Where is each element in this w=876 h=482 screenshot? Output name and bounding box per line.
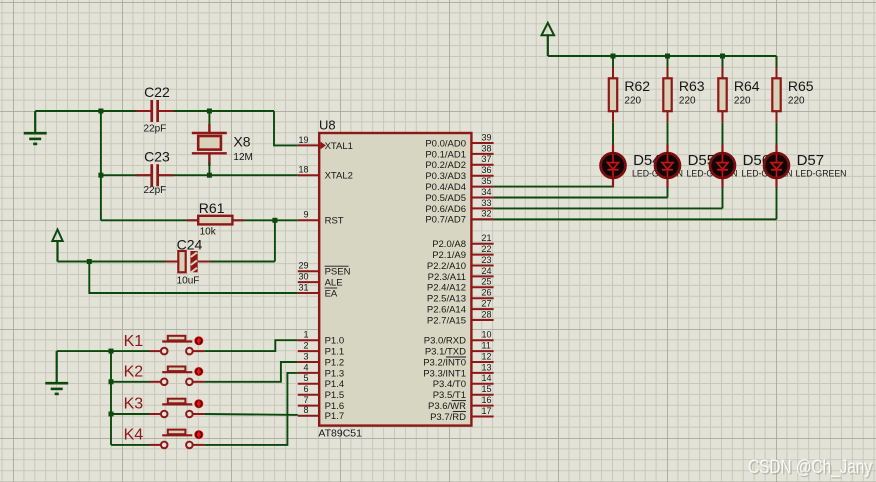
pin 22 P2.1/A9 (right) xyxy=(432,244,493,261)
pin 2 P1.1 (left) xyxy=(298,341,344,358)
svg-text:P1.5: P1.5 xyxy=(325,390,345,401)
wire +5V bus xyxy=(548,55,777,57)
svg-text:P0.6/AD6: P0.6/AD6 xyxy=(425,204,466,215)
svg-text:R62: R62 xyxy=(624,78,650,94)
pin 19 XTAL1 (left) xyxy=(298,135,353,152)
svg-text:5: 5 xyxy=(303,373,308,383)
pin 32 P0.7/AD7 (right) xyxy=(425,209,493,226)
wire EA branch to pin 31 xyxy=(89,262,297,294)
pin 13 P3.3/INT1 (right) xyxy=(423,362,493,379)
svg-text:EA: EA xyxy=(325,288,338,299)
pin 4 P1.3 (left) xyxy=(298,362,344,379)
resistor R64 xyxy=(718,56,759,122)
svg-text:39: 39 xyxy=(482,132,492,142)
svg-text:220: 220 xyxy=(734,96,751,107)
svg-text:P1.2: P1.2 xyxy=(325,357,345,368)
pin 37 P0.2/AD2 (right) xyxy=(425,154,493,171)
wire D56 cathode down xyxy=(722,188,724,209)
svg-text:P2.7/A15: P2.7/A15 xyxy=(427,315,466,326)
switch K1 xyxy=(111,333,204,355)
resistor R61 xyxy=(187,200,244,238)
svg-text:U8: U8 xyxy=(319,118,336,133)
svg-text:K2: K2 xyxy=(124,364,144,381)
wire K1 to P1.0 pin 1 xyxy=(204,340,298,351)
junction +5V bus xyxy=(611,54,616,59)
pin 12 P3.2/INT0 (right) xyxy=(423,351,493,368)
pin 14 P3.4/T0 (right) xyxy=(433,373,494,390)
svg-text:P2.6/A14: P2.6/A14 xyxy=(427,305,466,316)
svg-text:D57: D57 xyxy=(797,152,825,169)
junction +5V bus xyxy=(665,54,670,59)
svg-text:P0.5/AD5: P0.5/AD5 xyxy=(425,193,466,204)
svg-text:9: 9 xyxy=(303,210,308,220)
svg-text:C23: C23 xyxy=(144,149,170,165)
svg-text:16: 16 xyxy=(482,395,492,405)
junction K bus / K2 xyxy=(109,379,114,384)
capacitor C24 (electrolytic) xyxy=(166,237,211,287)
wire R64 to D56 xyxy=(722,122,724,145)
pin 7 P1.6 (left) xyxy=(298,395,344,412)
wire RST row xyxy=(101,219,298,221)
wire K4 to P1.3 pin 4 xyxy=(204,373,298,445)
crystal X8 xyxy=(192,124,253,166)
svg-text:XTAL1: XTAL1 xyxy=(325,141,353,152)
svg-text:32: 32 xyxy=(482,209,492,219)
svg-text:P2.5/A13: P2.5/A13 xyxy=(427,294,466,305)
svg-text:P3.6/WR: P3.6/WR xyxy=(428,401,466,412)
svg-text:3: 3 xyxy=(303,351,308,361)
wire crystal top xyxy=(208,111,210,132)
svg-text:28: 28 xyxy=(482,309,492,319)
resistor R63 xyxy=(663,56,704,122)
pin 6 P1.5 (left) xyxy=(298,384,344,401)
capacitor C22 xyxy=(136,84,174,135)
svg-text:6: 6 xyxy=(303,384,308,394)
svg-text:29: 29 xyxy=(298,261,308,271)
svg-text:10uF: 10uF xyxy=(177,276,200,287)
svg-text:PSEN: PSEN xyxy=(325,267,351,278)
junction RST row / C24 riser xyxy=(272,218,277,223)
junction top row / crystal top xyxy=(207,109,212,114)
LED D56 xyxy=(710,145,793,188)
svg-text:P2.4/A12: P2.4/A12 xyxy=(427,283,466,294)
svg-text:P3.2/INT0: P3.2/INT0 xyxy=(423,357,466,368)
switch K3 xyxy=(111,396,204,418)
pin 17 P3.7/RD (right) xyxy=(430,406,494,423)
wire D55 cathode down xyxy=(667,188,669,198)
svg-text:22: 22 xyxy=(482,244,492,254)
pin 35 P0.4/AD4 (right) xyxy=(425,176,493,193)
wire +5V bus drop to R65 xyxy=(776,56,778,68)
wire R62 to D54 xyxy=(612,122,614,145)
pin 23 P2.2/A10 (right) xyxy=(427,255,494,272)
svg-text:30: 30 xyxy=(298,272,308,282)
LED D54 xyxy=(601,145,684,188)
svg-text:P3.4/T0: P3.4/T0 xyxy=(433,379,466,390)
svg-text:P2.1/A9: P2.1/A9 xyxy=(432,250,466,261)
switch K2 xyxy=(111,364,204,386)
svg-text:C22: C22 xyxy=(144,84,170,100)
pin 18 XTAL2 (left) xyxy=(298,165,353,182)
capacitor C23 xyxy=(136,149,174,196)
pin 15 P3.5/T1 (right) xyxy=(433,384,494,401)
wire RST riser down to C24 row xyxy=(274,220,276,261)
pin 29 PSEN (left) xyxy=(298,261,351,278)
svg-text:P0.3/AD3: P0.3/AD3 xyxy=(425,171,466,182)
resistor R62 xyxy=(609,56,650,122)
wire R65 to D57 xyxy=(776,122,778,145)
svg-text:P0.7/AD7: P0.7/AD7 xyxy=(425,215,466,226)
svg-text:K1: K1 xyxy=(124,333,144,350)
resistor R65 xyxy=(772,56,813,122)
wire left vertical bus (C22/C23/R61) xyxy=(100,111,102,220)
svg-text:10: 10 xyxy=(482,330,492,340)
svg-text:C24: C24 xyxy=(177,237,203,253)
wire to XTAL1 pin 19 xyxy=(274,111,298,145)
wire P0.5 net to LED D55 xyxy=(494,197,668,199)
svg-text:P1.0: P1.0 xyxy=(325,336,345,347)
pin 33 P0.6/AD6 (right) xyxy=(425,198,493,215)
svg-text:P1.1: P1.1 xyxy=(325,347,345,358)
svg-text:35: 35 xyxy=(482,176,492,186)
svg-text:38: 38 xyxy=(482,143,492,153)
svg-text:24: 24 xyxy=(482,266,492,276)
svg-text:P0.0/AD0: P0.0/AD0 xyxy=(425,138,466,149)
svg-text:P2.0/A8: P2.0/A8 xyxy=(432,239,466,250)
wire K3 to P1.7 pin 8 xyxy=(204,413,298,416)
svg-text:P3.3/INT1: P3.3/INT1 xyxy=(423,368,466,379)
svg-text:8: 8 xyxy=(303,405,308,415)
pin 31 EA (left) xyxy=(298,282,338,299)
wire top net (C22/XTAL1 row) xyxy=(35,110,274,112)
pin 10 P3.0/RXD (right) xyxy=(424,330,494,347)
wire K bus vertical xyxy=(110,351,112,445)
svg-text:R64: R64 xyxy=(734,78,760,94)
svg-text:13: 13 xyxy=(482,362,492,372)
ground top-left xyxy=(24,111,47,144)
wire D57 cathode down xyxy=(776,188,778,220)
svg-text:21: 21 xyxy=(482,233,492,243)
svg-text:12M: 12M xyxy=(233,152,252,163)
svg-text:ALE: ALE xyxy=(325,278,343,289)
wire P0.7 net to LED D57 xyxy=(494,218,777,220)
pin 21 P2.0/A8 (right) xyxy=(432,233,493,250)
svg-text:P1.4: P1.4 xyxy=(325,379,345,390)
pin 27 P2.6/A14 (right) xyxy=(427,299,494,316)
pin 11 P3.1/TXD (right) xyxy=(425,341,494,358)
svg-text:P1.3: P1.3 xyxy=(325,368,345,379)
wire P0.4 net to LED D54 xyxy=(494,186,613,188)
junction top row / left bus xyxy=(98,109,103,114)
svg-text:23: 23 xyxy=(482,255,492,265)
svg-text:27: 27 xyxy=(482,299,492,309)
pin 9 RST (left) xyxy=(298,210,344,227)
svg-text:19: 19 xyxy=(298,135,308,145)
svg-text:P1.7: P1.7 xyxy=(325,411,345,422)
svg-text:X8: X8 xyxy=(233,133,250,149)
pin 30 ALE (left) xyxy=(298,272,343,289)
XTAL1 clock marker xyxy=(320,142,326,150)
wire ground to K bus xyxy=(57,350,111,352)
svg-text:P0.2/AD2: P0.2/AD2 xyxy=(425,160,466,171)
svg-text:36: 36 xyxy=(482,165,492,175)
svg-text:18: 18 xyxy=(298,165,308,175)
svg-text:2: 2 xyxy=(303,341,308,351)
svg-text:22pF: 22pF xyxy=(144,124,167,135)
svg-text:R63: R63 xyxy=(679,78,705,94)
svg-text:37: 37 xyxy=(482,154,492,164)
wire K2 to P1.2 pin 3 xyxy=(204,362,298,382)
svg-text:P2.3/A11: P2.3/A11 xyxy=(428,272,466,283)
LED D55 xyxy=(655,145,738,188)
svg-text:33: 33 xyxy=(482,198,492,208)
svg-text:P0.4/AD4: P0.4/AD4 xyxy=(425,182,466,193)
svg-text:R61: R61 xyxy=(199,200,225,216)
pin 36 P0.3/AD3 (right) xyxy=(425,165,493,182)
svg-text:15: 15 xyxy=(482,384,492,394)
pin 28 P2.7/A15 (right) xyxy=(427,309,494,326)
svg-text:P0.1/AD1: P0.1/AD1 xyxy=(425,149,466,160)
svg-text:220: 220 xyxy=(624,96,641,107)
power +5V right xyxy=(542,23,555,56)
wire P0.6 net to LED D56 xyxy=(494,207,723,209)
svg-text:25: 25 xyxy=(482,277,492,287)
svg-text:P3.5/T1: P3.5/T1 xyxy=(433,390,466,401)
pin 26 P2.5/A13 (right) xyxy=(427,288,494,305)
wire C23 row to XTAL2 pin 18 xyxy=(101,174,298,176)
svg-text:1: 1 xyxy=(303,330,308,340)
junction C23 row / crystal bottom xyxy=(207,173,212,178)
svg-text:220: 220 xyxy=(679,96,696,107)
junction C24 row / EA branch xyxy=(87,259,92,264)
LED D57 xyxy=(764,145,847,188)
ground switches xyxy=(45,351,68,394)
pin 38 P0.1/AD1 (right) xyxy=(425,143,493,160)
pin 3 P1.2 (left) xyxy=(298,351,344,368)
svg-text:26: 26 xyxy=(482,288,492,298)
pin 5 P1.4 (left) xyxy=(298,373,344,390)
junction C23 row / left bus xyxy=(98,173,103,178)
svg-text:XTAL2: XTAL2 xyxy=(325,171,353,182)
pin 25 P2.4/A12 (right) xyxy=(427,277,494,294)
svg-text:AT89C51: AT89C51 xyxy=(318,428,362,440)
svg-text:LED-GREEN: LED-GREEN xyxy=(796,169,847,180)
pin 8 P1.7 (left) xyxy=(298,405,344,422)
wire C24 row xyxy=(58,261,275,263)
svg-text:12: 12 xyxy=(482,351,492,361)
switch K4 xyxy=(111,427,204,449)
pin 34 P0.5/AD5 (right) xyxy=(425,187,493,204)
junction +5V bus xyxy=(720,54,725,59)
svg-text:220: 220 xyxy=(788,96,805,107)
svg-text:K4: K4 xyxy=(124,427,144,444)
svg-text:4: 4 xyxy=(303,362,308,372)
pin 1 P1.0 (left) xyxy=(298,330,344,347)
pin 24 P2.3/A11 (right) xyxy=(428,266,494,283)
svg-text:R65: R65 xyxy=(788,78,814,94)
pin 16 P3.6/WR (right) xyxy=(428,395,494,412)
wire crystal bottom xyxy=(208,162,210,175)
svg-text:17: 17 xyxy=(482,406,492,416)
svg-text:14: 14 xyxy=(482,373,492,383)
svg-text:P3.7/RD: P3.7/RD xyxy=(430,412,466,423)
power +5V left xyxy=(52,230,62,262)
svg-text:K3: K3 xyxy=(124,396,144,413)
svg-text:31: 31 xyxy=(298,282,308,292)
wire R63 to D55 xyxy=(667,122,669,145)
junction K bus / K3 xyxy=(109,412,114,417)
svg-text:7: 7 xyxy=(303,395,308,405)
chip U8 AT89C51 body xyxy=(319,133,471,426)
svg-text:CSDN @Ch_Jany: CSDN @Ch_Jany xyxy=(748,457,872,478)
svg-text:22pF: 22pF xyxy=(144,185,167,196)
svg-text:11: 11 xyxy=(482,341,491,351)
svg-text:34: 34 xyxy=(482,187,492,197)
svg-text:P2.2/A10: P2.2/A10 xyxy=(427,261,466,272)
svg-text:P3.0/RXD: P3.0/RXD xyxy=(424,336,466,347)
svg-text:RST: RST xyxy=(325,216,344,227)
svg-text:P3.1/TXD: P3.1/TXD xyxy=(425,347,466,358)
junction K bus / K1 xyxy=(109,349,114,354)
pin 39 P0.0/AD0 (right) xyxy=(425,132,493,149)
